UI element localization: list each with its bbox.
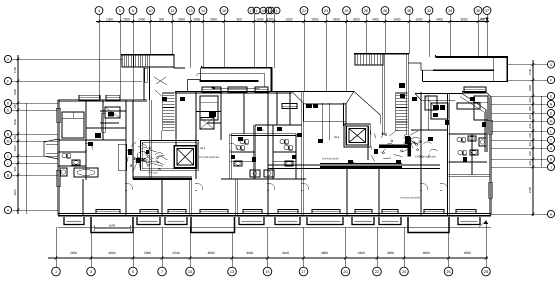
bath left end washing machine (60, 168, 67, 176)
center bay inner right wall (345, 103, 347, 124)
bath left end tub (74, 168, 98, 177)
wall x126 (124, 100, 126, 215)
svg-text:3450: 3450 (387, 251, 394, 255)
svg-text:600: 600 (528, 151, 532, 156)
left corridor top edge (202, 67, 273, 69)
left corridor thick bar (200, 80, 259, 82)
door/window mark (374, 149, 378, 154)
wall x86 (84, 100, 86, 140)
building right wall (488, 97, 490, 215)
door/window mark (292, 155, 296, 159)
svg-text:4800: 4800 (207, 251, 214, 255)
wall x221 (219, 92, 221, 140)
wall x421 (419, 92, 421, 215)
top grid bubbles (95, 7, 103, 15)
bed unit B (200, 96, 218, 120)
right corridor inner vertical (493, 57, 495, 81)
right exterior stair hatched strip (355, 54, 383, 65)
svg-text:16: 16 (222, 9, 226, 13)
left elevator shaft (174, 146, 196, 168)
svg-text:900: 900 (528, 106, 532, 111)
right corridor thick bar (433, 69, 493, 71)
entrance porch (91, 217, 133, 233)
wall y134 unit B (231, 133, 297, 135)
left axis ticks (17, 58, 20, 61)
svg-text:300: 300 (13, 135, 17, 140)
door/window mark (463, 157, 467, 162)
wall y123 left unit (100, 122, 119, 124)
svg-text:26: 26 (364, 9, 368, 13)
svg-text:AL1: AL1 (334, 135, 340, 139)
door/window mark (238, 137, 243, 141)
svg-text:1900: 1900 (106, 17, 113, 21)
svg-text:5: 5 (132, 270, 134, 274)
wall x236 living (235, 179, 237, 215)
svg-text:10: 10 (188, 270, 192, 274)
wall x103 (101, 100, 103, 140)
svg-text:4800: 4800 (321, 251, 328, 255)
center bay inner top (304, 102, 347, 104)
top axis ticks (98, 20, 101, 23)
right machine room outline (344, 124, 370, 147)
wiring cluster left core (141, 159, 143, 161)
door/window mark (412, 97, 417, 101)
left grid bubbles (4, 55, 11, 62)
right corridor bottom edge (423, 80, 509, 82)
svg-text:25: 25 (344, 9, 348, 13)
wall y130 unit D (411, 128, 448, 130)
wall x254 (253, 125, 255, 179)
svg-text:4500: 4500 (13, 189, 17, 196)
wall x344 (343, 103, 345, 126)
wall x230 (229, 134, 231, 179)
black box right of core (209, 112, 216, 117)
window box on top wall (79, 95, 100, 100)
right corridor left connection (408, 63, 433, 70)
svg-text:12: 12 (170, 9, 174, 13)
bottom grid bubbles (52, 267, 61, 276)
svg-text:4800: 4800 (423, 251, 430, 255)
unit B kitchen sinks (250, 170, 260, 177)
wall x347 living (345, 168, 347, 215)
wall y162 right end (448, 161, 487, 163)
entrance porch (408, 217, 449, 233)
svg-text:4350: 4350 (464, 251, 471, 255)
svg-text:1740: 1740 (528, 68, 532, 75)
svg-text:YJV-4x25-SC50: YJV-4x25-SC50 (322, 158, 339, 161)
door/window mark (277, 127, 282, 131)
svg-text:3300: 3300 (353, 17, 360, 21)
door/window mark (128, 149, 132, 155)
door/window mark (180, 97, 185, 101)
right wall window boxes (489, 120, 493, 134)
right corridor right edge (506, 57, 508, 81)
wall x272 (271, 125, 273, 179)
door/window mark (257, 127, 262, 131)
wall y152 unit B (231, 151, 255, 153)
svg-text:30: 30 (407, 9, 411, 13)
closet with X unit B (200, 118, 214, 130)
wall x448 (447, 94, 449, 216)
wall y111 unit B (196, 111, 221, 113)
svg-text:900: 900 (480, 17, 486, 21)
thick panel bar vertical right core (408, 137, 411, 157)
svg-text:1500: 1500 (13, 145, 17, 152)
svg-text:28: 28 (383, 9, 387, 13)
svg-text:4860: 4860 (108, 251, 115, 255)
wall x290 (288, 92, 290, 125)
right stair shaft walls (382, 54, 384, 135)
window box on top wall (202, 87, 221, 92)
left stair treads (163, 92, 175, 94)
door/window mark (162, 97, 167, 101)
bath left end sink (72, 160, 80, 165)
svg-text:18: 18 (262, 9, 266, 13)
svg-text:17: 17 (301, 270, 305, 274)
svg-text:2400: 2400 (210, 17, 217, 21)
svg-text:AL1: AL1 (414, 141, 420, 145)
left stair top landing arrows (154, 77, 167, 85)
left end balcony bay (44, 139, 58, 159)
left corridor right edge (270, 68, 272, 92)
walkway right half thick band (320, 163, 402, 165)
right axis dimension line (532, 60, 534, 216)
bottom balcony bay (379, 217, 401, 225)
svg-text:300: 300 (236, 17, 242, 21)
wall x368 elevator right (367, 126, 369, 160)
bed left end (62, 112, 84, 138)
top grid lines (98, 14, 100, 99)
svg-text:2400: 2400 (138, 17, 145, 21)
door opening (195, 183, 197, 190)
svg-text:3000: 3000 (460, 17, 467, 21)
svg-text:1000: 1000 (285, 17, 292, 21)
bottom axis line (48, 257, 488, 259)
svg-text:22: 22 (375, 270, 379, 274)
left machine room outline (141, 141, 199, 171)
building top wall left section (58, 99, 147, 101)
svg-text:1: 1 (55, 270, 57, 274)
left corridor hook (188, 68, 201, 92)
svg-text:F: F (550, 78, 552, 82)
svg-text:1000: 1000 (415, 17, 422, 21)
door opening (420, 183, 422, 190)
svg-text:2700: 2700 (528, 186, 532, 193)
svg-text:2400: 2400 (372, 17, 379, 21)
bottom balcony bay (352, 217, 374, 225)
window box on top wall (255, 87, 268, 92)
svg-text:2000: 2000 (144, 251, 151, 255)
svg-text:14: 14 (201, 9, 205, 13)
door/window mark (297, 133, 302, 137)
top axis line (96, 21, 489, 23)
svg-text:2400: 2400 (393, 17, 400, 21)
svg-text:2240: 2240 (172, 251, 179, 255)
svg-text:2800: 2800 (311, 17, 318, 21)
bath left end walls (84, 140, 86, 180)
left stair core walls (149, 100, 151, 178)
bottom balcony bay (458, 217, 480, 225)
right end bay wall (485, 110, 487, 152)
svg-text:37: 37 (485, 9, 489, 13)
right bay chamfer left (415, 94, 421, 101)
wall y128 left end (86, 127, 126, 129)
closet left end (105, 107, 120, 118)
wall x379 living (377, 168, 379, 215)
wall x329 (328, 103, 330, 140)
door/window mark (470, 97, 475, 101)
svg-text:2400: 2400 (436, 17, 443, 21)
svg-text:7: 7 (161, 270, 163, 274)
door opening (267, 183, 269, 190)
svg-text:32: 32 (427, 9, 431, 13)
svg-text:M: M (7, 139, 10, 143)
svg-text:2450: 2450 (70, 251, 77, 255)
window box wall x103 (102, 113, 106, 132)
wall y123 unit B (207, 122, 221, 124)
svg-text:G: G (550, 63, 553, 67)
unit B bath fixtures right (280, 139, 284, 143)
svg-text:1740: 1740 (13, 66, 17, 73)
svg-text:600: 600 (528, 133, 532, 138)
svg-text:13: 13 (188, 9, 192, 13)
building top wall middle section (175, 90, 292, 92)
svg-text:4: 4 (98, 9, 100, 13)
left corridor bottom edge (188, 90, 273, 92)
svg-text:YJV-4x25: YJV-4x25 (148, 172, 158, 175)
door opening (85, 143, 87, 150)
svg-text:600: 600 (528, 123, 532, 128)
wall y179 balcony band left core (133, 175, 192, 177)
door/window mark (108, 112, 114, 117)
svg-text:15: 15 (265, 270, 269, 274)
building top wall right section (462, 90, 486, 92)
right bay chamfer right double (462, 94, 487, 111)
door/window mark (318, 139, 323, 143)
wiring cluster right core (391, 140, 393, 142)
svg-text:2600: 2600 (256, 17, 263, 21)
unit D appliance marks (433, 105, 439, 110)
wall y125 middle (255, 123, 302, 125)
door opening (230, 143, 232, 150)
svg-text:F: F (7, 79, 9, 83)
svg-text:20: 20 (343, 270, 347, 274)
right axis ticks (532, 63, 535, 66)
bottom balcony bay (137, 217, 160, 225)
door opening (301, 183, 303, 190)
svg-text:L: L (7, 161, 9, 165)
svg-text:300: 300 (528, 97, 532, 102)
svg-text:26: 26 (446, 270, 450, 274)
bottom balcony bay (275, 217, 300, 225)
bottom axis ticks (55, 257, 58, 260)
bath left end toilet (62, 153, 66, 157)
wall x83 living (81, 179, 83, 215)
wall y140 left end (58, 138, 126, 140)
svg-text:5: 5 (119, 9, 121, 13)
svg-text:2000: 2000 (123, 17, 130, 21)
door opening (125, 183, 127, 190)
svg-text:2400: 2400 (528, 84, 532, 91)
svg-text:13: 13 (230, 270, 234, 274)
bottom balcony bay (239, 217, 264, 225)
porch dimension line (94, 227, 130, 229)
svg-text:300: 300 (528, 141, 532, 146)
bottom grid lines (55, 227, 57, 267)
center bay inner bottom (304, 120, 347, 122)
center bay top edge (292, 90, 354, 92)
door/window mark (445, 120, 449, 125)
wall x428 (427, 95, 429, 130)
left wall window boxes (56, 108, 61, 122)
right grid bubbles (547, 61, 554, 68)
ground line under bays (58, 226, 491, 228)
svg-text:300: 300 (13, 104, 17, 109)
svg-text:YJV-4x25-SC50-WC: YJV-4x25-SC50-WC (199, 156, 220, 159)
svg-text:YJV-4x25-SC50-WC: YJV-4x25-SC50-WC (415, 156, 436, 159)
svg-text:2400: 2400 (333, 17, 340, 21)
walkway right half thin lines (268, 164, 440, 166)
door/window mark (428, 137, 433, 141)
door opening (440, 183, 442, 190)
right bay inner lines (421, 99, 455, 101)
bottom right leader arrow (485, 221, 487, 256)
left corridor arrow (212, 87, 260, 89)
left stair flight arrow (155, 90, 162, 96)
svg-text:J: J (550, 165, 552, 169)
right bay top edge (415, 93, 462, 95)
svg-text:900: 900 (13, 166, 17, 171)
svg-text:21: 21 (302, 9, 306, 13)
svg-text:300: 300 (528, 114, 532, 119)
closet unit D (425, 96, 437, 110)
right stair landing marks (399, 83, 405, 88)
bottom wall window boxes (96, 210, 120, 214)
svg-text:G: G (7, 57, 10, 61)
left stair step edge (173, 56, 175, 68)
window box on top wall (106, 95, 120, 100)
wall x296 (294, 134, 296, 179)
svg-text:AL1: AL1 (200, 146, 206, 150)
left stair shaft walls (143, 67, 145, 100)
svg-text:4100: 4100 (282, 251, 289, 255)
bottom balcony bay (64, 217, 84, 225)
right elevator shaft (346, 126, 368, 145)
svg-text:10: 10 (148, 9, 152, 13)
svg-text:6: 6 (132, 9, 134, 13)
wall y175 right end (448, 174, 490, 176)
left axis dimension line (17, 55, 19, 214)
building top-right chamfer (486, 92, 491, 97)
svg-text:2400: 2400 (358, 251, 365, 255)
wall x302 (301, 92, 303, 215)
svg-text:17: 17 (250, 9, 254, 13)
unit D panel blob (405, 136, 410, 144)
door/window mark (231, 155, 235, 159)
wall y179 unit B (221, 177, 306, 179)
wall x133 (132, 100, 134, 179)
entrance porch (191, 217, 235, 233)
right end bath fixtures (457, 137, 461, 141)
wall x244 (242, 92, 244, 134)
bed right end (474, 96, 488, 120)
door/window mark (252, 157, 256, 162)
thick panel bar horizontal right core (379, 145, 411, 148)
svg-text:2400: 2400 (13, 88, 17, 95)
svg-text:L: L (550, 129, 552, 133)
svg-text:34: 34 (448, 9, 452, 13)
top axis end arrow (485, 18, 488, 22)
building bottom wall (58, 215, 491, 217)
kitchen counter left end (118, 144, 126, 170)
svg-text:3660: 3660 (246, 251, 253, 255)
window box left wall center (282, 104, 297, 109)
wall x322 (322, 103, 324, 140)
svg-text:1: 1 (276, 9, 278, 13)
window box on top wall (464, 87, 486, 92)
bottom balcony bay (165, 217, 187, 225)
svg-text:YJV-4x16-SC40-FC: YJV-4x16-SC40-FC (400, 197, 421, 200)
window box on top wall (228, 87, 247, 92)
svg-text:2400: 2400 (178, 17, 185, 21)
svg-text:28: 28 (484, 270, 488, 274)
svg-text:300: 300 (159, 17, 165, 21)
svg-text:M: M (550, 119, 553, 123)
door/window mark (306, 104, 312, 108)
door/window mark (482, 122, 486, 127)
unit B bath fixtures left (240, 139, 244, 143)
svg-text:1: 1 (256, 9, 258, 13)
door/window mark (348, 160, 353, 164)
wall y134 right end (448, 132, 487, 134)
wall x162 living (160, 179, 162, 215)
door/window mark (396, 160, 401, 164)
svg-text:3: 3 (90, 270, 92, 274)
door/window mark (313, 104, 318, 108)
left corridor inner rect (198, 73, 265, 75)
building left wall (57, 100, 59, 215)
wall x268 (266, 92, 268, 215)
wall x190 living (189, 179, 191, 215)
svg-text:600: 600 (528, 160, 532, 165)
left grid leader lines (11, 58, 122, 60)
left exterior stair hatched strip (122, 55, 174, 67)
svg-text:3600: 3600 (13, 118, 17, 125)
wall y111 left unit (100, 110, 126, 112)
right end washing machine (479, 138, 486, 146)
wall x196 (194, 92, 196, 179)
right grid leader lines (508, 64, 548, 66)
svg-text:4560: 4560 (109, 224, 116, 228)
bottom balcony bay (307, 217, 343, 225)
center bay chamfer right (346, 91, 354, 103)
right axis second line (540, 96, 542, 167)
svg-text:36: 36 (476, 9, 480, 13)
svg-text:3300: 3300 (266, 17, 273, 21)
svg-text:2800: 2800 (193, 17, 200, 21)
wall y161 unit B (231, 161, 255, 163)
left axis second line (26, 103, 28, 214)
center bay right slope (354, 91, 381, 115)
right end bed (457, 103, 480, 109)
right corridor top edge (435, 56, 508, 58)
wall x277 (275, 92, 277, 125)
svg-text:19: 19 (270, 9, 274, 13)
right stair treads (396, 92, 408, 94)
center bay chamfer left (292, 91, 304, 103)
svg-text:23: 23 (324, 9, 328, 13)
svg-text:24: 24 (402, 270, 406, 274)
